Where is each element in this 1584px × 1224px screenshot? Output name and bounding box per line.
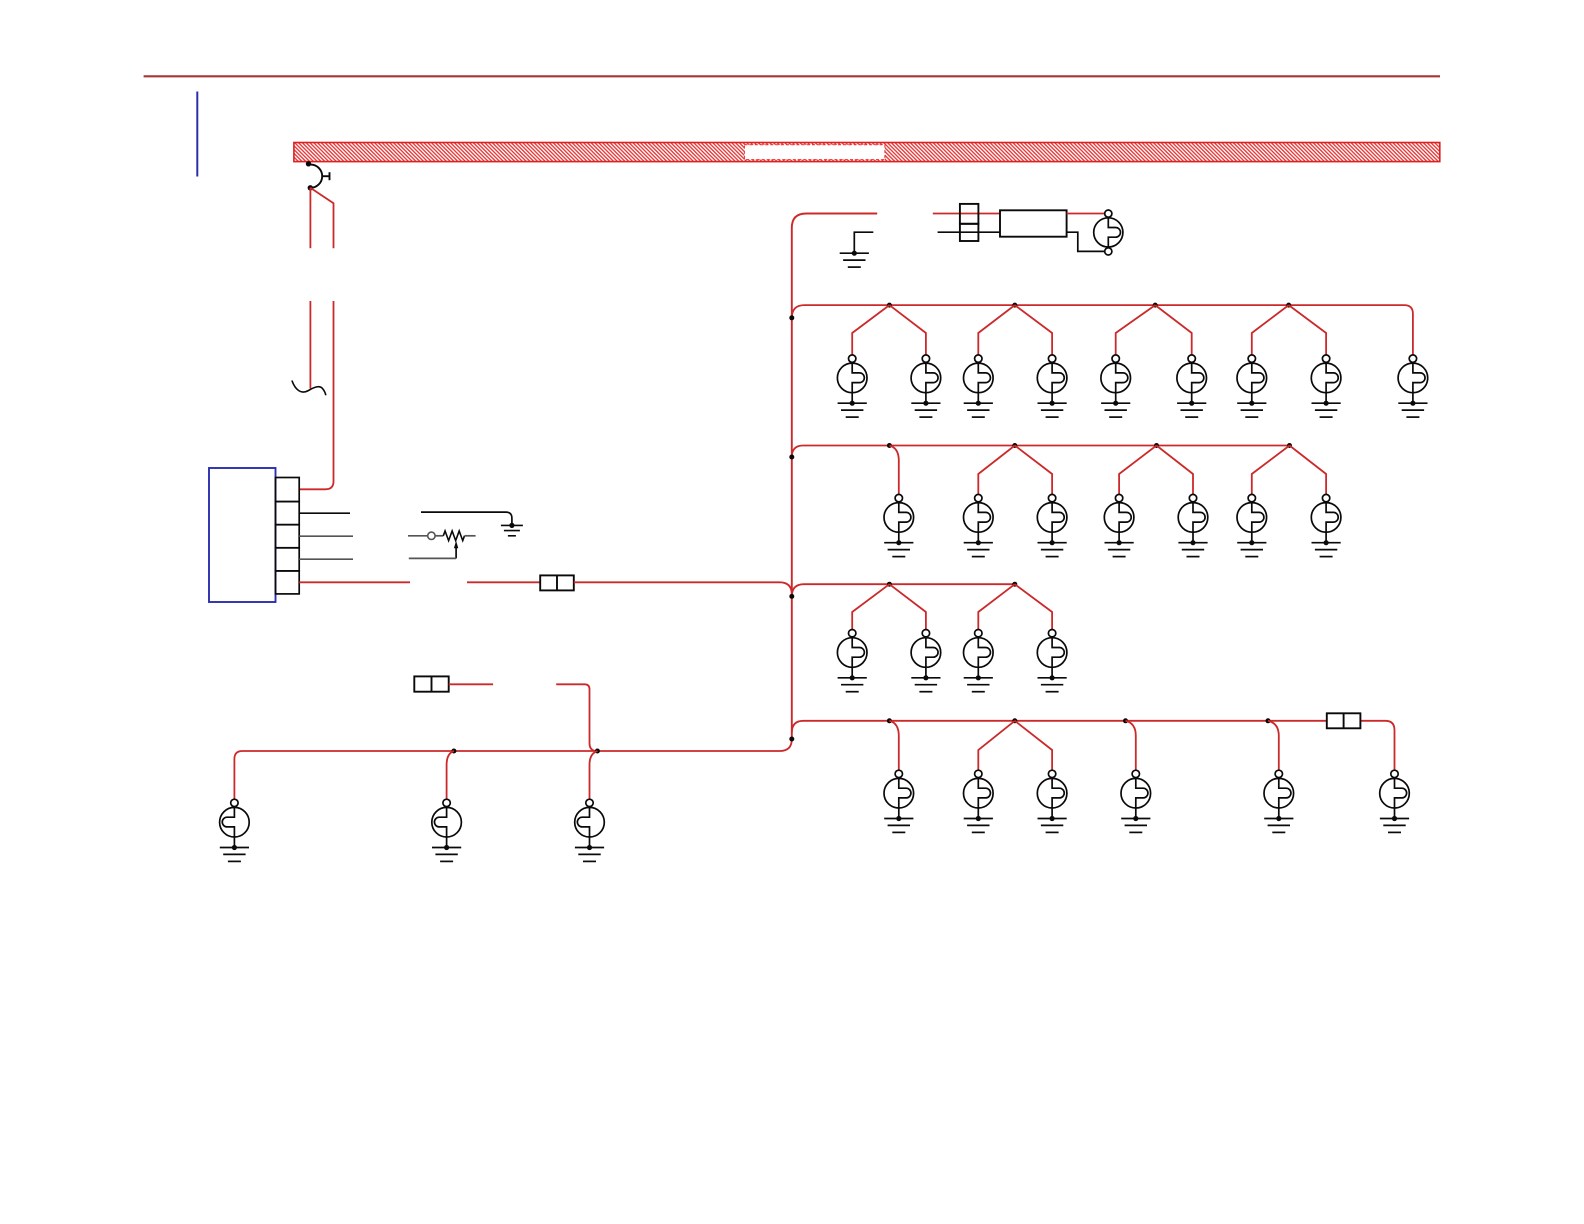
lamp A7 [1237,355,1267,403]
node below connector [308,185,313,190]
node trunk-row C [789,594,794,599]
node bus E2 [595,749,600,754]
wire pin 5 run [467,581,540,583]
wire branch D2b [1015,721,1052,770]
wire branch A2a [978,305,1015,355]
lamp C1 [837,630,867,678]
wire bus bottom-left [234,739,791,799]
wire branch C2a [978,584,1015,629]
wire branch A4a [1252,305,1289,355]
lamp A4 [1037,355,1067,403]
ground lamp D4 [1121,816,1150,833]
fuse F1 [540,575,574,590]
lamp D4 [1121,770,1151,818]
ground lamp C1 [838,675,867,692]
connector pin box 3 [276,525,300,548]
wire branch C1b [889,584,926,629]
wire pin 3 stub [299,535,353,537]
wire jog D1 [889,721,898,770]
in-line connector (arc with T) [310,165,329,188]
ground lamp D3 [1038,816,1067,833]
wire pin 4 stub [299,558,353,560]
wire jog B1 [889,446,898,495]
ground lamp A2 [911,401,940,418]
ground lamp E1 [220,845,249,862]
wire jog D4 [1268,721,1279,770]
ground lamp C2 [911,675,940,692]
wire resistor to lamp L0 [1067,213,1105,215]
connector pin box 2 [276,502,300,525]
rheostat resistive element [443,531,464,541]
lamp C3 [964,630,994,678]
lamp E2 [432,799,462,847]
ground lamp A4 [1038,401,1067,418]
lamp A8 [1311,355,1341,403]
wire branch B2a [978,446,1015,495]
lamp B6 [1237,494,1267,542]
wire bus row C [792,584,1015,596]
ground lamp A6 [1177,401,1206,418]
wire branch B4a [1252,446,1290,495]
connector J1 upper half [960,204,979,224]
lamp A5 [1101,355,1131,403]
wire bus row A [792,305,1413,355]
connector pin box 5 [276,571,300,594]
node bus D2 [1012,718,1017,723]
node trunk-bottom [789,737,794,742]
wire to connector J1 [933,213,1000,215]
lamp A2 [911,355,941,403]
ground lamp E2 [432,845,461,862]
wire branch C2b [1015,584,1052,629]
wire rheostat right [465,535,476,537]
wire bus row D [792,721,1327,733]
ground lamp A5 [1101,401,1130,418]
wire ground riser [854,232,873,251]
node bus A2 [1012,303,1017,308]
node bus D3 [1123,718,1128,723]
wire feeder L1 upper [309,188,311,248]
node bus A4 [1286,303,1291,308]
lamp L0 top terminal [1105,210,1112,217]
fuse F2 [1327,713,1361,728]
lamp C2 [911,630,941,678]
series resistor block [1000,210,1067,236]
ground lamp B5 [1178,540,1207,556]
wire branch A4b [1289,305,1326,355]
lamp B4 [1104,494,1134,542]
wire feeder L1 lower [309,301,311,389]
wire jog E1 [447,751,454,799]
ground lamp A3 [964,401,993,418]
control unit connector (blue) [209,468,276,602]
ground lamp B3 [1038,540,1067,556]
lamp D2 [964,770,994,818]
busbar label window [744,145,885,160]
node trunk-row A [789,315,794,320]
ground lamp D6 [1380,816,1409,833]
ground lamp B7 [1312,540,1341,556]
node bus D1 [887,718,892,723]
wire branch D2a [978,721,1015,770]
node bus B3 [1154,443,1159,448]
connector pin box 1 [276,478,300,502]
lamp D5 [1264,770,1294,818]
wire branch A3a [1116,305,1156,355]
wire main trunk [792,214,877,740]
wire branch B3b [1157,446,1194,495]
lamp A3 [964,355,994,403]
wire branch B3a [1119,446,1156,495]
wire resistor return to lamp L0 [1067,232,1105,251]
node bus A3 [1153,303,1158,308]
ground lamp E3 [575,845,604,862]
wire feeder L2 upper [310,188,333,248]
node bus E1 [451,749,456,754]
rheostat wiper stem [455,547,457,558]
lamp A9 [1398,355,1428,403]
lamp D6 [1380,770,1410,818]
wire branch A3b [1155,305,1192,355]
ground lamp B2 [964,540,993,556]
node bus D4 [1266,718,1271,723]
fuse F3 [414,676,448,691]
lamp A6 [1177,355,1207,403]
rheostat terminal circle [428,532,435,539]
lamp A1 [837,355,867,403]
ground lamp B1 [884,540,913,556]
wire branch B4b [1290,446,1327,495]
wire return stub to J1 [938,231,1000,233]
ground lamp D2 [964,816,993,833]
wire bus row D right [1360,721,1394,770]
ground lamp B4 [1105,540,1134,556]
top horizontal rule [144,75,1440,77]
rheostat wiper arrowhead [454,541,458,549]
ground lamp D5 [1264,816,1293,833]
lamp L0 bottom terminal [1105,248,1112,255]
ground G2 [840,251,869,268]
node bus A1 [887,303,892,308]
node bus B2 [1012,443,1017,448]
wire rheostat mid [435,535,443,537]
connector J1 lower half [960,224,979,241]
ground lamp B6 [1237,540,1266,556]
power busbar B+ (hatched) [294,143,1440,162]
ground lamp C4 [1038,675,1067,692]
ground lamp D1 [884,816,913,833]
wire wiper feed [409,557,456,559]
wire pin 5 feed [299,581,410,583]
node bus C1 [887,582,892,587]
left margin blue tick [196,92,198,177]
ground lamp A9 [1398,401,1427,418]
wire branch B2b [1015,446,1052,495]
wire jog E2 [590,751,598,799]
ground lamp A7 [1237,401,1266,418]
wire rheostat to ground [421,512,512,523]
lamp L0 bulb [1094,217,1123,248]
lamp B5 [1178,494,1208,542]
lamp D3 [1037,770,1067,818]
ground lamp A8 [1312,401,1341,418]
ground lamp C3 [964,675,993,692]
lamp B7 [1311,494,1341,542]
wire-break squiggle [292,381,326,396]
lamp D1 [884,770,914,818]
wire feeder L2 lower to pin 1 [299,301,333,489]
wire rheostat left [408,535,428,537]
node trunk-row B [789,455,794,460]
wire branch A1a [852,305,889,355]
wire branch C1a [852,584,889,629]
wire branch A1b [889,305,926,355]
connector pin box 4 [276,548,300,571]
wire jog D3 [1126,721,1136,770]
wire F1 to trunk [574,582,792,596]
wire bus row B [792,446,1290,458]
lamp E3 [575,799,605,847]
wire drop to bottom bus [556,684,595,751]
wire branch A2b [1015,305,1052,355]
node bus B4 [1287,443,1292,448]
node tap on busbar [306,161,311,166]
lamp B3 [1037,494,1067,542]
node bus C2 [1012,582,1017,587]
wire pin 2 stub [299,512,350,514]
ground G1 [501,523,523,536]
node bus B1 [887,443,892,448]
lamp B2 [964,494,994,542]
lamp E1 [220,799,250,847]
wire F3 stub [449,683,493,685]
lamp B1 [884,494,914,542]
ground lamp A1 [838,401,867,418]
lamp C4 [1037,630,1067,678]
